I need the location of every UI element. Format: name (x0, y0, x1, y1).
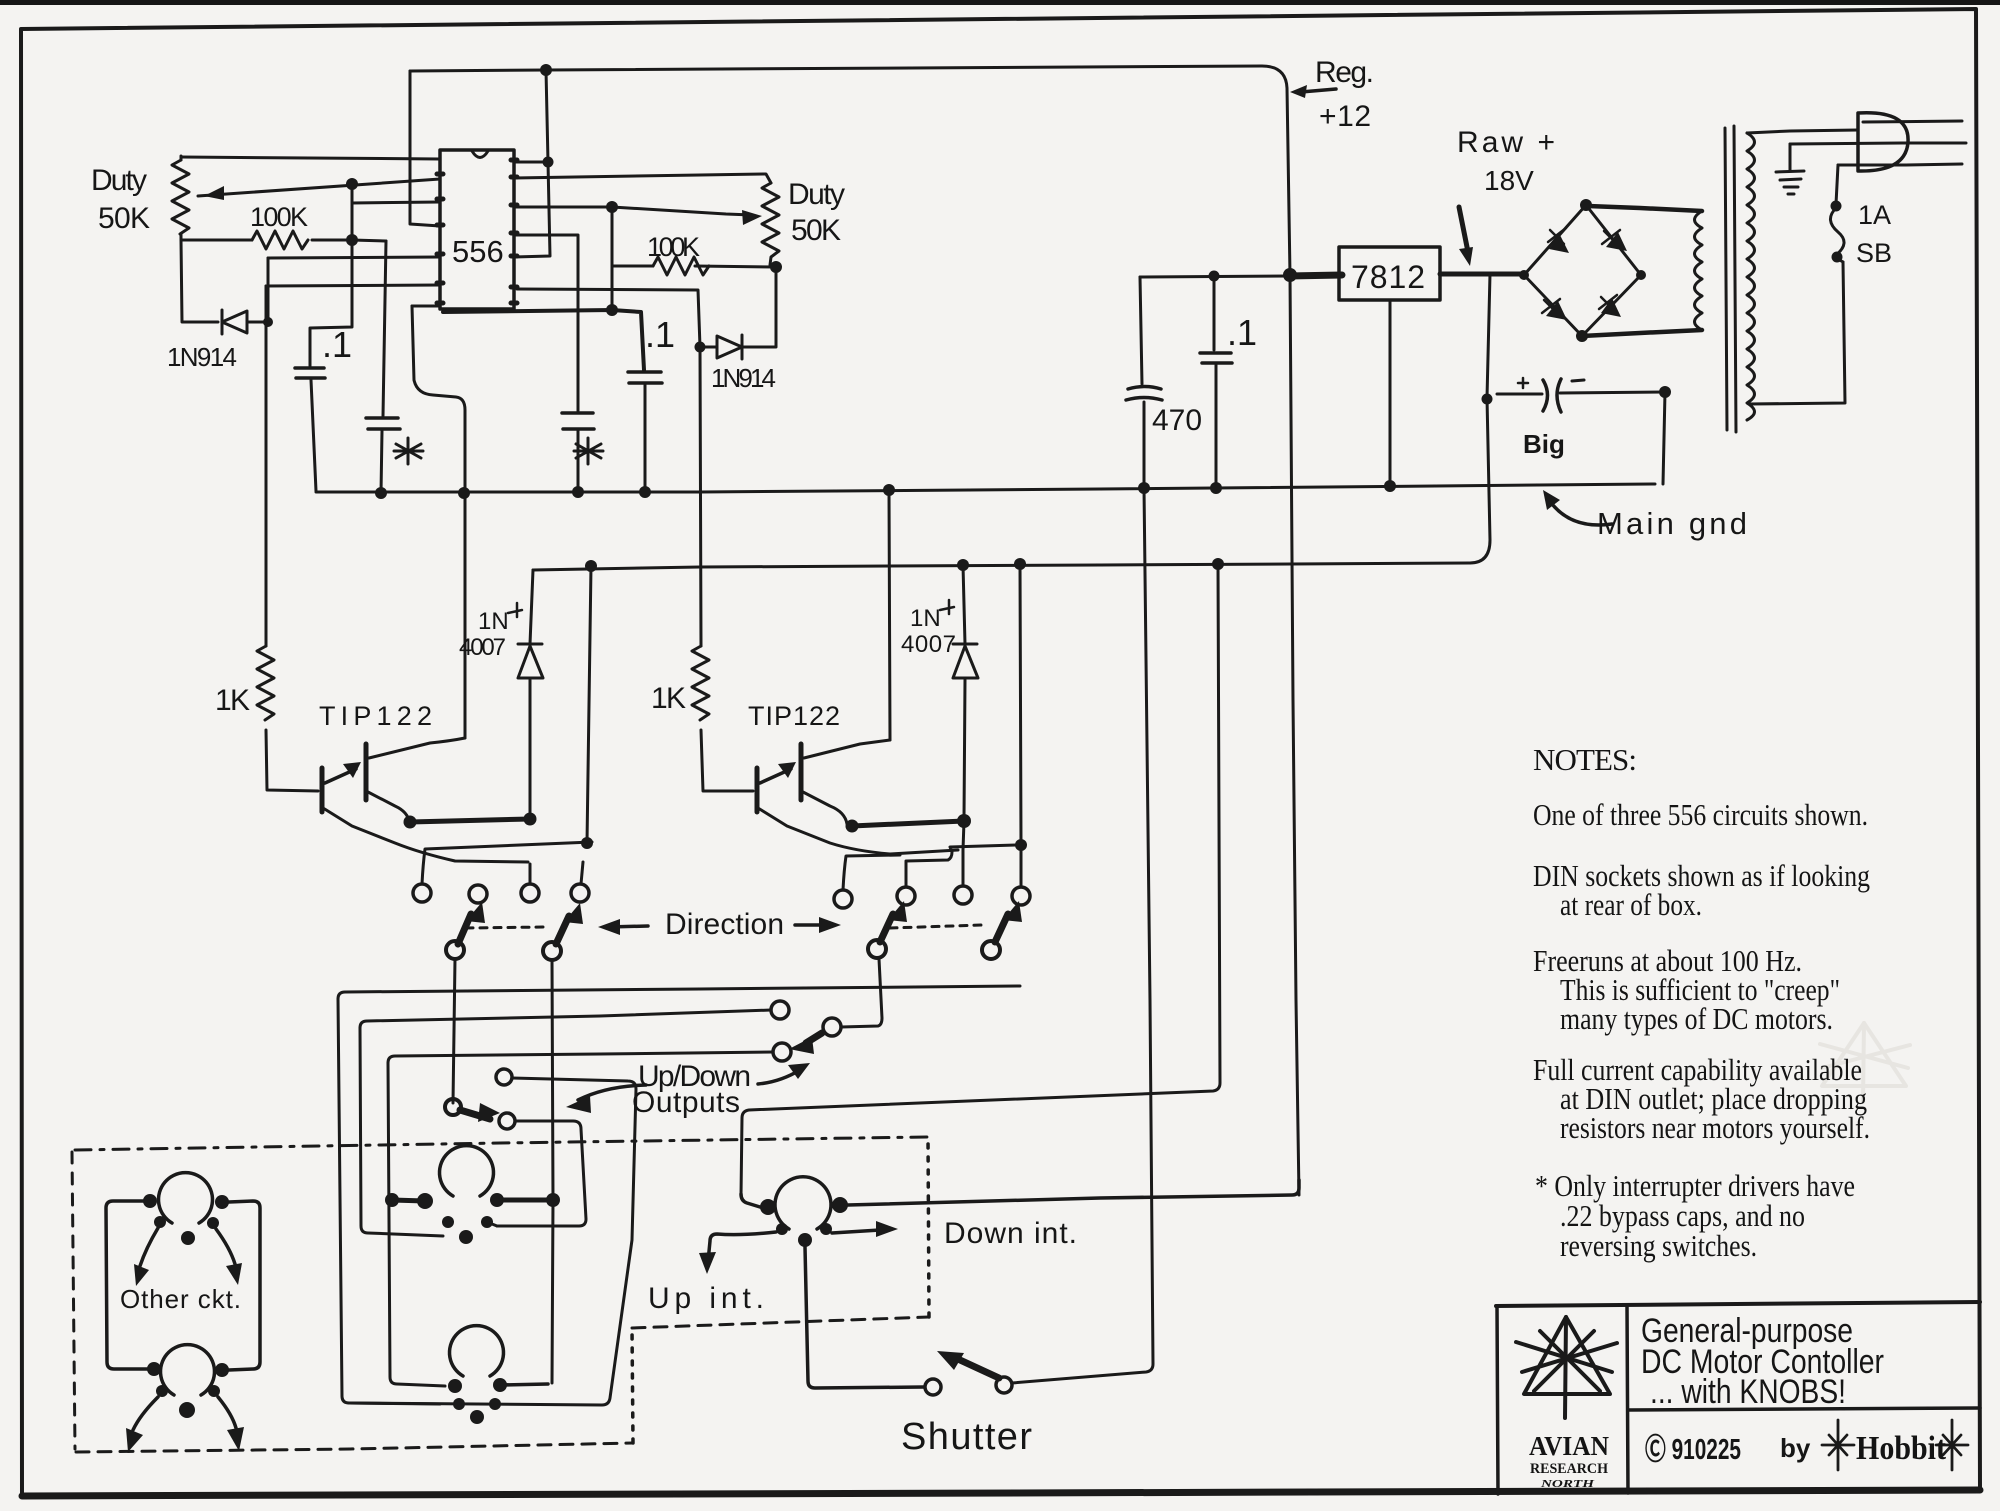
svg-text:One of three 556 circuits show: One of three 556 circuits shown. (1533, 797, 1868, 832)
svg-text:Outputs: Outputs (632, 1086, 740, 1119)
svg-text:Duty: Duty (788, 178, 845, 211)
svg-text:many types of DC motors.: many types of DC motors. (1560, 1001, 1833, 1036)
svg-text:AVIAN: AVIAN (1529, 1431, 1609, 1461)
svg-text:Duty: Duty (91, 164, 147, 197)
svg-text:SB: SB (1856, 238, 1892, 268)
svg-text:100K: 100K (647, 232, 700, 262)
svg-text:1A: 1A (1858, 200, 1891, 230)
svg-text:7812: 7812 (1351, 259, 1425, 295)
svg-text:50K: 50K (98, 202, 150, 235)
svg-text:.1: .1 (1227, 312, 1257, 353)
svg-text:TIP122: TIP122 (319, 701, 432, 731)
svg-text:NOTES:: NOTES: (1533, 742, 1637, 777)
svg-text:Shutter: Shutter (901, 1416, 1032, 1458)
svg-text:TIP122: TIP122 (748, 701, 840, 731)
svg-text:1K: 1K (651, 682, 686, 715)
svg-text:Direction: Direction (665, 908, 784, 941)
svg-text:by: by (1780, 1433, 1811, 1463)
svg-text:4007: 4007 (459, 634, 506, 661)
svg-text:NORTH: NORTH (1539, 1479, 1595, 1490)
svg-text:Hobbit: Hobbit (1856, 1430, 1947, 1467)
svg-text:resistors near motors yourself: resistors near motors yourself. (1560, 1110, 1870, 1145)
svg-text:1N: 1N (910, 605, 941, 632)
svg-text:50K: 50K (791, 214, 841, 247)
svg-text:RESEARCH: RESEARCH (1530, 1461, 1608, 1477)
svg-text:1N914: 1N914 (167, 342, 237, 372)
svg-text:470: 470 (1152, 404, 1202, 437)
svg-text:Ⓒ 910225: Ⓒ 910225 (1645, 1433, 1741, 1466)
svg-text:reversing switches.: reversing switches. (1560, 1228, 1757, 1263)
svg-text:4007: 4007 (901, 631, 956, 658)
svg-text:Big: Big (1523, 429, 1565, 459)
svg-text:+12: +12 (1319, 100, 1371, 133)
svg-text:at rear of box.: at rear of box. (1560, 887, 1702, 922)
svg-text:18V: 18V (1484, 165, 1534, 196)
svg-text:1N914: 1N914 (711, 363, 776, 393)
svg-text:... with KNOBS!: ... with KNOBS! (1650, 1373, 1846, 1411)
svg-text:Other ckt.: Other ckt. (120, 1284, 241, 1314)
svg-text:.1: .1 (645, 314, 675, 355)
svg-text:Down int.: Down int. (944, 1217, 1077, 1250)
svg-text:Reg.: Reg. (1315, 56, 1374, 89)
svg-text:.1: .1 (322, 324, 352, 365)
svg-text:Main gnd: Main gnd (1597, 506, 1747, 541)
svg-text:Up int.: Up int. (648, 1282, 764, 1315)
svg-text:Raw +: Raw + (1457, 126, 1555, 159)
svg-text:100K: 100K (250, 202, 308, 232)
svg-text:1K: 1K (215, 684, 250, 717)
svg-text:1N: 1N (478, 608, 509, 635)
svg-text:556: 556 (452, 234, 504, 269)
